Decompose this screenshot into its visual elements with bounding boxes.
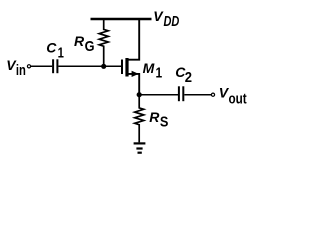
svg-text:out: out bbox=[229, 90, 248, 107]
svg-text:DD: DD bbox=[164, 12, 180, 29]
svg-text:M: M bbox=[143, 60, 155, 76]
svg-text:C: C bbox=[46, 40, 57, 56]
svg-text:R: R bbox=[149, 109, 160, 125]
svg-text:V: V bbox=[153, 8, 164, 24]
svg-text:1: 1 bbox=[156, 64, 163, 81]
svg-text:R: R bbox=[74, 33, 85, 49]
svg-text:1: 1 bbox=[58, 44, 64, 61]
svg-text:in: in bbox=[16, 61, 26, 78]
svg-text:S: S bbox=[160, 112, 169, 129]
svg-text:2: 2 bbox=[185, 68, 192, 85]
svg-text:G: G bbox=[85, 37, 95, 54]
